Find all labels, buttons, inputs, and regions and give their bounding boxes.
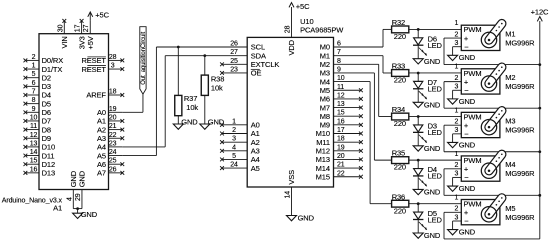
svg-text:M11: M11 [316,138,330,147]
svg-text:GND: GND [78,170,87,187]
svg-text:3: 3 [455,171,459,178]
resistor R32 [392,26,409,33]
svg-text:OE: OE [251,69,262,78]
svg-text:10: 10 [337,75,345,82]
wire R37 to ground [177,116,179,124]
ground (D7) [413,100,441,109]
svg-text:D6: D6 [42,108,51,117]
svg-text:6: 6 [32,80,36,87]
svg-text:3: 3 [455,40,459,47]
svg-text:15: 15 [337,110,345,117]
svg-text:8: 8 [32,97,36,104]
wire M1 + pin to +12C rail [444,38,540,65]
svg-text:A5: A5 [251,164,260,173]
svg-text:M6: M6 [320,95,330,104]
U10 right pins M0-M15 [316,41,363,182]
svg-text:A3: A3 [251,147,260,156]
power flag +5C on arduino +5V pin [88,11,110,21]
svg-text:A3: A3 [97,134,106,143]
R35 labels [392,149,406,172]
svg-text:10k: 10k [211,84,223,93]
resistor R37 [175,95,182,115]
svg-text:7: 7 [337,49,341,56]
svg-text:MG996R: MG996R [505,213,535,222]
svg-text:M8: M8 [320,112,330,121]
resistor R38 [201,75,208,95]
svg-text:20: 20 [109,114,117,121]
svg-text:M10: M10 [316,129,330,138]
wire A5 (SCL) to U10 SCL [122,47,247,156]
svg-text:+5V: +5V [86,36,95,49]
svg-text:D4: D4 [42,91,51,100]
svg-text:R34: R34 [392,105,405,114]
svg-text:A4: A4 [97,143,106,152]
junction R34/D3 [417,115,420,118]
svg-text:10k: 10k [186,103,198,112]
svg-text:220: 220 [394,32,406,41]
svg-text:28: 28 [109,54,117,61]
svg-text:GND: GND [298,213,315,222]
D5 labels [428,209,443,225]
svg-text:R36: R36 [392,192,405,201]
svg-text:2: 2 [232,127,236,134]
ground (M3) [448,140,476,149]
U10 VDD pin 28 with power flag +5C [284,2,310,56]
svg-text:26: 26 [109,166,117,173]
wire M4 - pin to ground [452,177,454,186]
U10 left pins SCL SDA EXTCLK OE A0-A5 [220,41,279,173]
svg-text:2: 2 [455,118,459,125]
svg-text:M14: M14 [316,164,330,173]
svg-text:4: 4 [232,144,236,151]
svg-text:M4: M4 [320,77,330,86]
svg-text:R35: R35 [392,149,405,158]
ground symbol (arduino) [73,209,98,219]
U10 VSS pin 14 to ground [285,170,297,216]
svg-text:1: 1 [455,107,459,114]
svg-text:2: 2 [455,162,459,169]
svg-text:D10: D10 [42,143,55,152]
svg-text:16: 16 [337,118,345,125]
svg-text:R38: R38 [211,74,224,83]
ground (M2) [448,97,476,106]
D7 labels [428,78,443,94]
M4 labels [505,160,535,178]
arduino A1 right pins RESET/AREF/A0-A7 [81,54,124,178]
svg-text:D8: D8 [42,125,51,134]
svg-text:25: 25 [230,58,238,65]
svg-text:220: 220 [394,163,406,172]
ground (M4) [448,184,476,193]
wire R38 to ground [204,95,206,124]
wire M2 - pin to ground [452,90,454,99]
junction M3 supply / +12C rail [538,150,541,153]
svg-text:D3: D3 [42,82,51,91]
wire D4 to ground [417,176,419,190]
svg-text:M15: M15 [316,172,330,181]
M1 labels [505,30,535,48]
wire R35 to M4 PWM [409,159,462,161]
wire M1 to R33 row [334,56,392,73]
svg-text:20: 20 [337,153,345,160]
svg-text:22: 22 [109,132,117,139]
svg-text:SCL: SCL [251,43,265,52]
svg-text:RESET: RESET [81,56,106,65]
junction M1 supply / +12C rail [538,63,541,66]
svg-text:MG996R: MG996R [505,82,535,91]
svg-text:4: 4 [66,197,73,201]
svg-text:D1/TX: D1/TX [42,65,63,74]
svg-text:9: 9 [32,106,36,113]
arduino A1 body [39,34,109,190]
svg-text:28: 28 [284,25,291,33]
svg-text:VSS: VSS [287,170,296,185]
svg-text:M12: M12 [316,147,330,156]
svg-text:GND: GND [424,57,441,66]
wire M2 + pin to +12C rail [444,82,540,109]
D4 labels [428,165,443,181]
svg-text:R32: R32 [392,18,405,27]
svg-text:3: 3 [455,84,459,91]
wire SDA to R38 [204,56,206,75]
svg-text:A2: A2 [97,125,106,134]
wire M3 - pin to ground [452,134,454,143]
svg-text:A1: A1 [53,204,62,213]
svg-text:5: 5 [32,71,36,78]
ground (U10 VSS) [287,213,315,222]
svg-text:GND: GND [459,228,476,237]
svg-text:14: 14 [285,191,292,199]
R33 labels [392,62,406,85]
svg-text:D7: D7 [42,117,51,126]
servo motor M4 MG996R [444,151,503,182]
svg-text:11: 11 [337,84,344,91]
svg-text:D0/RX: D0/RX [42,56,64,65]
R32 labels [392,18,406,41]
arduino A1 value label Arduino_Nano_v3.x [2,196,63,204]
svg-text:Out_aquisitionCircuit: Out_aquisitionCircuit [141,32,147,85]
svg-text:1: 1 [232,118,236,125]
svg-text:A6: A6 [97,160,106,169]
svg-text:LED: LED [428,128,443,137]
svg-text:3: 3 [232,136,236,143]
svg-text:18: 18 [109,89,117,96]
LED D4 [413,160,427,186]
svg-text:14: 14 [30,149,38,156]
svg-text:−: − [464,130,469,139]
LED D3 [413,117,427,143]
ground (D5) [413,231,441,240]
svg-text:M2: M2 [505,73,515,82]
servo motor M3 MG996R [444,107,503,138]
svg-text:A4: A4 [251,155,260,164]
ground (M1) [448,53,476,62]
svg-text:24: 24 [230,162,238,169]
svg-text:M5: M5 [320,86,330,95]
D6 labels [428,35,443,51]
svg-text:11: 11 [30,123,37,130]
wire M3 to R35 row [334,73,392,160]
svg-text:MG996R: MG996R [505,169,535,178]
svg-text:220: 220 [394,206,406,215]
svg-text:27: 27 [230,49,238,56]
svg-text:1: 1 [455,64,459,71]
svg-text:30: 30 [57,24,64,32]
svg-text:M13: M13 [316,155,330,164]
svg-text:5: 5 [232,153,236,160]
svg-text:M4: M4 [505,160,515,169]
svg-text:PCA9685PW: PCA9685PW [300,26,344,35]
svg-text:23: 23 [109,140,117,147]
M3 labels [505,117,535,135]
svg-text:17: 17 [75,24,82,32]
IC U10 PCA9685PW body [247,37,333,187]
wire R34 to M3 PWM [409,116,462,118]
svg-text:D9: D9 [42,134,51,143]
svg-text:25: 25 [109,158,117,165]
svg-text:EXTCLK: EXTCLK [251,60,280,69]
svg-text:15: 15 [30,158,38,165]
svg-text:27: 27 [83,24,90,32]
svg-text:21: 21 [337,162,345,169]
svg-text:GND: GND [424,100,441,109]
svg-text:2: 2 [32,54,36,61]
svg-text:−: − [464,217,469,226]
wire D3 to ground [417,132,419,146]
LED D6 [413,29,427,55]
svg-text:6: 6 [337,41,341,48]
svg-text:22: 22 [337,170,345,177]
svg-text:1: 1 [455,20,459,27]
wire D6 to ground [417,45,419,59]
svg-text:+5C: +5C [296,2,310,11]
svg-text:−: − [464,86,469,95]
ground (R37) [173,117,198,129]
wire M4 to R36 row [334,82,392,204]
svg-text:12: 12 [30,132,38,139]
wire M4 + pin to +12C rail [444,169,540,196]
wire SCL to R37 [177,47,179,95]
svg-text:AREF: AREF [86,91,106,100]
svg-text:GND: GND [424,144,441,153]
wire D7 to ground [417,89,419,103]
servo motor M5 MG996R [444,194,503,225]
svg-text:GND: GND [69,170,78,187]
svg-text:GND: GND [459,184,476,193]
svg-text:9: 9 [337,66,341,73]
svg-text:M2: M2 [320,60,330,69]
ground (D4) [413,188,441,197]
wire A4 (SDA) to U10 SDA [122,56,247,147]
svg-text:A0: A0 [97,108,106,117]
svg-text:2: 2 [455,31,459,38]
servo motor M2 MG996R [444,64,503,95]
wire M2 to R34 row [334,64,392,116]
resistor R36 [392,200,409,207]
svg-text:26: 26 [230,41,238,48]
global label Out_aquisitionCircuit [140,27,147,94]
svg-text:GND: GND [459,140,476,149]
svg-text:10: 10 [30,114,38,121]
svg-text:SDA: SDA [251,51,266,60]
wire M0 to R32 row [334,29,392,47]
junction R36/D5 [417,202,420,205]
wire A0 to global label [122,94,143,112]
junction M4 supply / +12C rail [538,194,541,197]
svg-text:D11: D11 [42,151,55,160]
svg-text:R33: R33 [392,62,405,71]
svg-text:LED: LED [428,172,443,181]
resistor R35 [392,157,409,164]
D3 labels [428,122,443,138]
resistor R33 [392,70,409,77]
R37 labels [184,94,199,112]
junction SCL / R37 [177,46,180,49]
svg-text:M3: M3 [320,69,330,78]
wire R32 to M1 PWM [409,28,462,30]
svg-text:M1: M1 [320,51,330,60]
svg-text:A0: A0 [251,121,260,130]
svg-text:1: 1 [455,194,459,201]
arduino A1 top pins VIN 3V3 +5V [57,19,95,50]
wire R36 to M5 PWM [409,203,462,205]
arduino A1 bottom pins GND GND [66,170,86,208]
svg-text:−: − [464,173,469,182]
ground (D3) [413,144,441,153]
svg-text:LED: LED [428,215,443,224]
junction R35/D4 [417,159,420,162]
M5 labels [505,204,535,222]
svg-text:D5: D5 [42,99,51,108]
svg-text:23: 23 [230,66,238,73]
svg-text:29: 29 [75,193,82,201]
LED D7 [413,73,427,99]
svg-text:VIN: VIN [60,36,69,48]
svg-text:3: 3 [455,127,459,134]
R36 labels [392,192,406,215]
wire +12C rail [539,21,541,239]
svg-text:16: 16 [30,166,38,173]
wire M3 + pin to +12C rail [444,125,540,152]
svg-text:M1: M1 [505,30,515,39]
svg-text:A5: A5 [97,151,106,160]
svg-text:12: 12 [337,92,345,99]
svg-text:LED: LED [428,41,443,50]
svg-text:M3: M3 [505,117,515,126]
svg-text:21: 21 [109,123,117,130]
svg-text:MG996R: MG996R [505,39,535,48]
svg-text:GND: GND [424,231,441,240]
svg-text:2: 2 [455,206,459,213]
svg-text:D2: D2 [42,73,51,82]
svg-text:1: 1 [455,151,459,158]
ground (M5) [448,228,476,237]
arduino A1 left pins D0-D13 (all no-connect) [24,54,64,178]
R34 labels [392,105,406,128]
svg-text:GND: GND [181,117,198,126]
svg-text:M0: M0 [320,43,330,52]
svg-text:7: 7 [32,89,36,96]
svg-text:220: 220 [394,119,406,128]
svg-text:A1: A1 [97,117,106,126]
svg-text:1: 1 [32,63,36,70]
svg-text:8: 8 [337,58,341,65]
wire M1 - pin to ground [452,47,454,56]
LED D5 [413,204,427,230]
svg-text:A1: A1 [251,129,260,138]
ground (R38) [200,117,225,129]
svg-text:MG996R: MG996R [505,126,535,135]
ground (D6) [413,57,441,66]
svg-text:M5: M5 [505,204,515,213]
svg-text:17: 17 [337,127,345,134]
svg-text:13: 13 [337,101,345,108]
svg-text:+12C: +12C [531,7,549,16]
svg-text:−: − [464,42,469,51]
svg-text:3: 3 [455,214,459,221]
svg-text:VDD: VDD [287,39,296,55]
junction at arduino GND pins [76,207,79,210]
wire R33 to M2 PWM [409,72,462,74]
junction R33/D7 [417,72,420,75]
wire M5 - pin to ground [452,221,454,230]
svg-text:2: 2 [455,75,459,82]
junction SDA / R38 [203,54,206,57]
svg-text:GND: GND [459,53,476,62]
U10 reference and value labels [300,17,344,35]
servo motor M1 MG996R [444,20,503,51]
svg-text:M9: M9 [320,121,330,130]
junction R32/D6 [417,28,420,31]
wire M5 + pin to +12C rail [444,212,540,239]
junction M2 supply / +12C rail [538,107,541,110]
svg-text:R37: R37 [184,94,197,103]
arduino A1 reference label [53,204,62,213]
svg-text:LED: LED [428,85,443,94]
svg-text:13: 13 [30,140,38,147]
svg-text:18: 18 [337,136,345,143]
svg-text:24: 24 [109,149,117,156]
svg-text:+5C: +5C [95,11,109,20]
wire D5 to ground [417,220,419,234]
svg-text:3V3: 3V3 [77,36,86,49]
svg-text:A7: A7 [97,169,106,178]
power flag +12C [531,7,549,21]
svg-text:220: 220 [394,76,406,85]
svg-text:GND: GND [81,210,98,219]
resistor R34 [392,113,409,120]
svg-text:19: 19 [109,106,117,113]
svg-text:D13: D13 [42,169,55,178]
svg-text:GND: GND [459,97,476,106]
svg-text:M7: M7 [320,103,330,112]
svg-text:RESET: RESET [81,65,106,74]
svg-text:D12: D12 [42,160,55,169]
M2 labels [505,73,535,91]
svg-text:3: 3 [111,63,115,70]
svg-text:19: 19 [337,144,345,151]
R38 labels [211,74,224,92]
svg-text:A2: A2 [251,138,260,147]
svg-text:GND: GND [424,188,441,197]
